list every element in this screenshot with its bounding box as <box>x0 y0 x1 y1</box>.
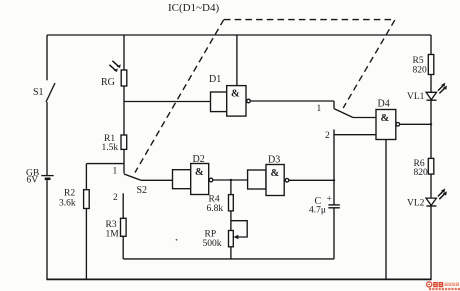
watermark small glyphs line 1 <box>445 283 460 286</box>
wire D2 output to D3 <box>213 179 248 181</box>
svg-text:1: 1 <box>113 167 118 177</box>
svg-text:3.6k: 3.6k <box>59 199 76 209</box>
svg-text:&: & <box>381 113 390 124</box>
junction C node <box>333 179 335 181</box>
wire R3 to bottom node wire <box>122 236 124 259</box>
wire RG branch top <box>123 35 125 70</box>
dashed IC boundary right slant <box>343 20 395 108</box>
svg-text:S1: S1 <box>33 87 44 98</box>
svg-text:2: 2 <box>113 193 118 203</box>
wire bottom rail <box>46 278 431 280</box>
resistor R5 <box>413 55 434 76</box>
speck <box>176 239 178 241</box>
wire R2 branch <box>85 164 87 190</box>
capacitor C <box>309 195 340 216</box>
svg-text:VL1: VL1 <box>407 92 425 102</box>
svg-text:VL2: VL2 <box>407 199 425 209</box>
wire R5 to VL1 <box>430 75 432 93</box>
dashed IC boundary left slant <box>135 20 224 173</box>
potentiometer RP <box>203 221 248 249</box>
wire contact2 down to capacitor <box>333 140 335 205</box>
svg-text:820: 820 <box>413 66 428 76</box>
resistor R6 <box>414 158 434 178</box>
resistor R4 <box>207 195 234 215</box>
svg-text:&: & <box>271 168 280 179</box>
watermark bold glyph 1 <box>433 282 443 287</box>
selector lever to D4 <box>334 109 353 118</box>
svg-text:RG: RG <box>101 77 115 88</box>
svg-text:1.5k: 1.5k <box>102 143 119 153</box>
wire RP to bottom node wire <box>230 247 232 259</box>
svg-text:IC(D1~D4): IC(D1~D4) <box>168 2 220 14</box>
svg-text:&: & <box>195 167 204 178</box>
wire capacitor to bottom node wire <box>333 208 335 259</box>
svg-text:R4: R4 <box>209 195 220 205</box>
svg-text:D3: D3 <box>268 155 280 166</box>
gate D4 <box>376 99 400 140</box>
dashed IC boundary top <box>224 19 395 21</box>
wire lever to D4 input <box>353 117 376 119</box>
wire VL1 to node B <box>430 100 432 158</box>
LED VL1 <box>407 83 447 102</box>
junction node B <box>430 123 432 125</box>
resistor R1 <box>102 134 127 153</box>
battery GB <box>26 169 54 186</box>
selector contact 1 of D4 <box>317 101 335 114</box>
svg-text:RP: RP <box>205 230 217 240</box>
wire S2 pole to D2 <box>141 179 173 181</box>
wire VL2 to bottom rail <box>430 206 432 279</box>
gate D3 <box>248 155 289 196</box>
wire R6 to VL2 <box>430 174 432 198</box>
wire left rail middle <box>46 102 48 175</box>
wire R2 to bottom rail <box>85 209 87 280</box>
switch S1 <box>33 83 55 102</box>
wire right rail top <box>430 35 432 55</box>
wire R4 to RP <box>230 211 232 231</box>
wire D3 output to C node <box>289 179 334 181</box>
wire node A to D1 input <box>124 101 211 103</box>
resistor R2 <box>59 189 89 209</box>
switch S2 <box>113 167 148 204</box>
svg-text:820: 820 <box>414 168 429 178</box>
photoresistor RG <box>101 61 127 88</box>
svg-text:6.8k: 6.8k <box>207 204 224 214</box>
watermark logo <box>427 282 460 290</box>
wire timing bottom horizontal <box>123 258 334 260</box>
node A junction to R1 <box>123 102 125 136</box>
wire R1 to S2 contact 1 <box>123 149 125 173</box>
wire D1 top pin <box>236 35 238 86</box>
svg-text:+: + <box>327 195 332 205</box>
gate D1 <box>209 74 250 116</box>
wire S2 contact 2 to R3 <box>122 193 124 218</box>
svg-text:1: 1 <box>317 104 322 114</box>
wire left rail lower <box>46 180 48 279</box>
selector contact 2 tick <box>325 130 334 142</box>
svg-text:6V: 6V <box>27 176 39 186</box>
svg-text:R3: R3 <box>106 220 117 230</box>
svg-text:R2: R2 <box>64 189 75 199</box>
LED VL2 <box>407 188 447 208</box>
svg-text:S2: S2 <box>137 185 148 196</box>
svg-text:1M: 1M <box>106 230 120 240</box>
svg-text:500k: 500k <box>203 239 222 249</box>
svg-text:D2: D2 <box>193 154 205 165</box>
svg-text:2: 2 <box>325 131 330 141</box>
svg-text:R5: R5 <box>413 56 424 66</box>
wire D4 bottom pin <box>385 140 387 280</box>
resistor R3 <box>106 218 127 239</box>
wire R2 node to S2 contact 1 <box>86 163 124 165</box>
junction R4 tap <box>230 179 232 181</box>
watermark tiny glyphs line 2 <box>429 288 460 290</box>
gate D2 <box>173 154 213 195</box>
wire D4 output to LED node <box>400 123 431 125</box>
wire RG to node A <box>123 86 125 102</box>
svg-text:&: & <box>231 89 240 100</box>
wire top rail <box>47 34 431 36</box>
svg-text:4.7μ: 4.7μ <box>309 206 326 216</box>
wire left rail upper <box>46 35 48 80</box>
wire D1 output to contact 1 <box>250 100 334 102</box>
wire D4 lower input <box>334 134 376 136</box>
svg-text:D1: D1 <box>209 74 221 85</box>
wire R4 top <box>230 180 232 195</box>
svg-text:D4: D4 <box>378 99 390 110</box>
